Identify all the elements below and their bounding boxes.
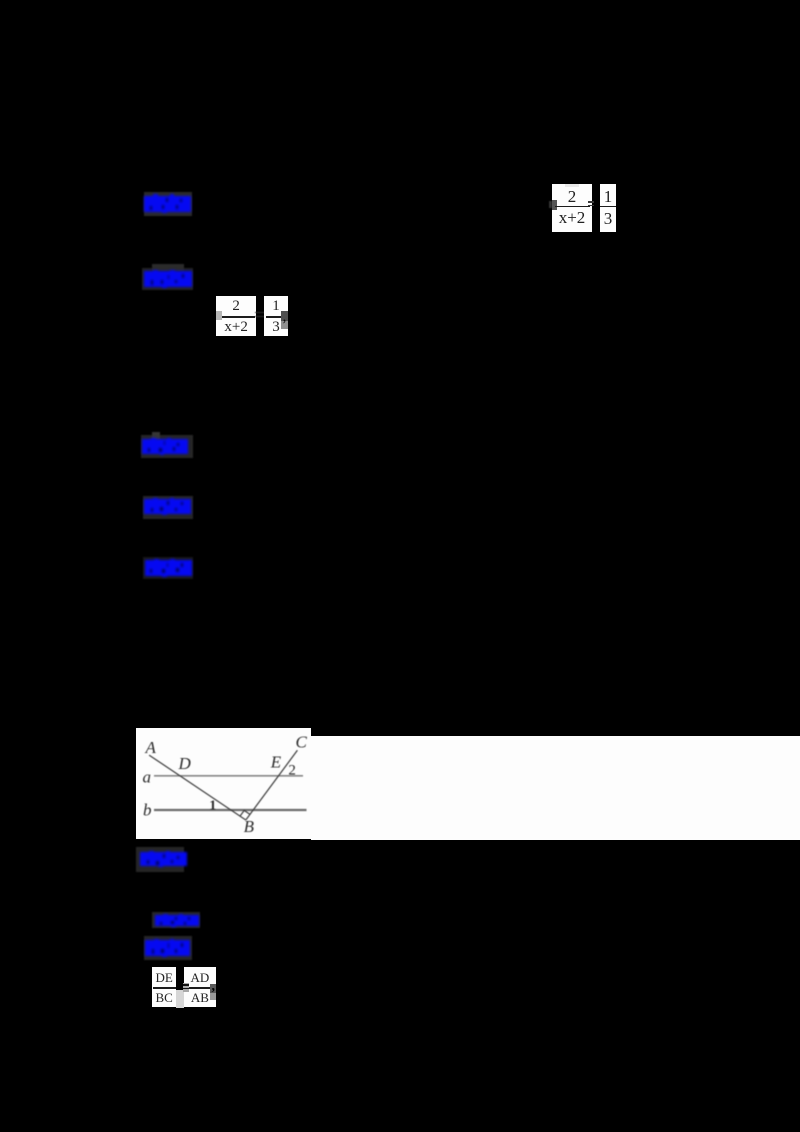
parallel line a [154,775,303,777]
equation E2 fraction 1/3 and comma [264,296,288,337]
svg-text:b: b [143,800,152,819]
svg-text:B: B [244,817,255,836]
right angle mark at B [240,811,250,817]
svg-text:C: C [296,733,308,752]
segment A-B [149,755,246,820]
equation E2 equals sign [255,312,267,314]
label L6 blue tag [140,852,187,867]
label L1 highlight halo [144,192,192,216]
label L5 highlight halo [143,557,193,580]
svg-text:a: a [143,768,152,787]
equation E1 equals sign [588,201,594,203]
equation E1 fraction 2/(x+2) [552,184,592,232]
ghost mark above L2 [152,264,184,271]
label L8 blue tag [145,940,190,956]
svg-text:D: D [178,754,192,773]
label L5 blue tag [145,560,192,576]
label L6 highlight halo [136,847,184,872]
equation E1 ghost notch outside left edge [549,201,553,208]
ghost tick above L3 [152,432,161,440]
equation E3 fraction AD/AB and comma [184,967,216,1007]
label L3 highlight halo [141,435,193,458]
svg-text:2: 2 [288,762,296,778]
diagram white background left box [136,728,311,840]
equation E3 gap fill [176,990,184,1008]
label L1 blue tag [144,196,191,212]
svg-text:A: A [145,738,157,757]
label L3 blue tag [142,439,188,454]
label L2 highlight halo [142,268,193,290]
label L7 blue tag [155,915,199,927]
label L4 highlight halo [143,496,193,519]
svg-text:1: 1 [209,799,216,814]
diagram white background right band [311,736,800,840]
label L8 highlight halo [144,936,192,960]
label L7 highlight halo [152,912,200,928]
segment B-C [246,750,298,820]
equation E3 fraction DE/BC [152,967,176,1007]
label L2 blue tag [144,271,193,287]
equation E2 fraction 2/(x+2) [216,296,256,337]
label L4 blue tag [144,499,192,514]
parallel line b [154,809,307,811]
svg-text:E: E [270,753,282,772]
diagram geometry drawing [136,727,312,840]
equation E1 fraction 1/3 [600,184,616,233]
equation E3 equals sign [183,984,189,986]
